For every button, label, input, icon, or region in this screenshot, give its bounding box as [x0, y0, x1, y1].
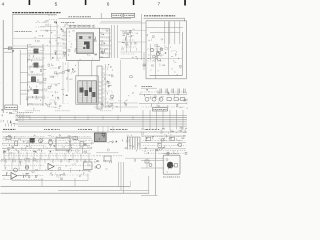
- ladder rail wire: [42, 44, 44, 106]
- IC tall box pin stubs: [102, 68, 105, 70]
- wire horizontal: [40, 30, 56, 32]
- wire vertical: [155, 58, 157, 79]
- section box: power amp: [67, 28, 100, 60]
- IC U2 (hatched): [78, 81, 96, 103]
- wire vertical: [91, 61, 93, 76]
- component cluster above box: [162, 39, 163, 41]
- relay box: [84, 162, 93, 170]
- IC U2 internal dividers: [82, 81, 84, 103]
- box A pin stubs: [63, 31, 67, 33]
- motor label text: [163, 176, 165, 178]
- IC U3 small box: [94, 133, 106, 142]
- right section title: touch delay timing: [144, 15, 146, 17]
- section divider wire: [140, 14, 142, 60]
- wire vertical: [111, 25, 113, 58]
- ladder rung wires: [28, 46, 44, 48]
- component cluster: right band: [170, 138, 172, 141]
- wire horizontal: [40, 25, 56, 27]
- wire horizontal: [17, 175, 30, 177]
- component cluster: record amp mid: [50, 151, 51, 153]
- component cluster: output stage mid: [88, 164, 89, 166]
- bottom wire 2: [58, 189, 149, 191]
- boxed label: [152, 108, 167, 111]
- motor top label: [163, 152, 164, 154]
- header rule wire: [59, 18, 132, 20]
- svg-text:7: 7: [158, 1, 161, 6]
- wire backbone: [1, 158, 93, 160]
- wire vertical bus: [19, 50, 21, 105]
- section box: bias stage: [76, 76, 98, 104]
- wire horizontal to touch box: [120, 58, 146, 60]
- op-amp U4: [11, 173, 17, 180]
- wire vertical: [150, 44, 152, 60]
- resistor R201 body: [6, 136, 11, 139]
- component row below IC U1: [92, 58, 94, 60]
- wire backbone: [141, 135, 186, 137]
- wire drops: [5, 124, 7, 127]
- IC box outline: [56, 138, 70, 150]
- transistor Q402: [149, 164, 152, 167]
- resistor bodies: [167, 98, 171, 101]
- capacitor C202 body: [15, 141, 18, 146]
- header small label text: [69, 16, 70, 18]
- grid ruler tick: [184, 0, 186, 6]
- resistor body: [145, 160, 149, 163]
- wire vertical: [126, 30, 128, 52]
- wire horizontal: [150, 31, 180, 33]
- wire horizontal: [118, 41, 146, 43]
- wire backbone: [141, 148, 186, 150]
- component chain outside box: [143, 52, 145, 70]
- wire stub: [20, 89, 28, 91]
- bus drop wires right: [142, 110, 144, 130]
- wire horizontal to touch box: [99, 22, 146, 24]
- wire horizontal: [96, 152, 119, 154]
- svg-text:4: 4: [2, 1, 5, 6]
- bottom wire 3: [1, 192, 150, 194]
- component row under bus: [181, 128, 183, 130]
- transistor Q201: [39, 139, 43, 143]
- wire vertical: [117, 25, 119, 58]
- section sub-box right of box A: [99, 29, 109, 58]
- sheet title: TOUCH CONTROL ASSEMBLY: [12, 12, 14, 14]
- wire backbone: [139, 94, 187, 96]
- wire horizontal: [146, 26, 183, 28]
- capacitor pairs: [159, 89, 161, 94]
- wire vertical: [67, 62, 69, 92]
- wire backbone: [2, 137, 92, 139]
- bus jumper ticks: [29, 116, 31, 120]
- label REC/PB switching: [15, 31, 16, 33]
- wire horizontal: [94, 106, 138, 108]
- connector label box: [5, 105, 17, 110]
- wire horizontal: [4, 51, 13, 53]
- wire vertical bus: [12, 15, 14, 106]
- component cluster mid-lower: [127, 104, 129, 106]
- IC U1 (hatched hybrid IC): [76, 33, 93, 54]
- wire verticals: [164, 21, 166, 44]
- wire stub: [20, 72, 28, 74]
- component cluster: input amp column: [27, 99, 28, 100]
- motor M1 box: [163, 155, 180, 174]
- component cluster mid: [135, 56, 137, 58]
- wire horizontal: [67, 60, 100, 62]
- wire horizontal: [125, 157, 164, 159]
- wire backbone: [2, 142, 92, 144]
- wire backbone: [2, 148, 92, 150]
- wire vertical to bottom: [74, 178, 76, 186]
- paper grain noise: [61, 36, 62, 39]
- box B pin stubs: [98, 81, 101, 83]
- wire tick: [100, 13, 102, 19]
- IC small box: [104, 156, 111, 161]
- motor M1 body: [167, 162, 174, 169]
- transistor Q10: [150, 48, 154, 52]
- wire vertical: [62, 62, 64, 104]
- op-amp U5: [48, 164, 54, 170]
- component cluster: sparse mid: [98, 160, 99, 161]
- wire horizontal: [2, 175, 11, 177]
- wire vertical: [77, 61, 79, 76]
- component cluster: mid sparse: [107, 149, 109, 151]
- component bodies: [73, 137, 78, 140]
- resistor array R210-R215: [127, 137, 129, 150]
- wire vertical: [129, 181, 131, 186]
- wire vertical: [119, 60, 121, 112]
- wire verticals band link: [3, 151, 5, 161]
- ladder rail wire: [27, 44, 29, 106]
- wire horizontal: [101, 21, 141, 23]
- dark component group: [29, 142, 31, 145]
- grid ruler tick: [133, 0, 135, 5]
- component body boxes: [34, 49, 39, 54]
- wire horizontal: [141, 167, 164, 169]
- component cluster: playback eq row: [154, 96, 156, 98]
- wire chain vertical: [56, 24, 58, 58]
- connector CN1 cluster: [10, 112, 12, 113]
- wire vertical: [154, 149, 156, 195]
- label above box A: [68, 25, 69, 27]
- wire stub: [20, 93, 28, 95]
- component cluster left of box A: [65, 53, 66, 55]
- wire vertical: [148, 176, 150, 193]
- svg-text:6: 6: [107, 1, 110, 6]
- wire verticals nested frame: [118, 162, 120, 186]
- dark component box: [30, 138, 35, 143]
- section box: touch delay: [146, 21, 186, 79]
- grid ruler tick: [29, 0, 31, 5]
- transistors Q row: [145, 97, 149, 101]
- wire horizontal: [13, 45, 67, 47]
- paper background: [0, 0, 188, 200]
- sheet border wire: [2, 20, 4, 113]
- wire horizontal: [141, 160, 164, 162]
- component cluster: upper input column: [37, 41, 39, 42]
- wire horizontal: [120, 51, 141, 53]
- switch S1 contacts: [8, 47, 11, 50]
- wire vertical to bottom: [41, 178, 43, 186]
- wire backbone: [141, 142, 186, 144]
- transistor Q302: [25, 166, 29, 170]
- bus drop wires left: [16, 113, 18, 121]
- wire horizontal: [147, 58, 182, 60]
- component cluster: dense right-mid: [136, 150, 138, 152]
- wire vertical: [87, 176, 89, 181]
- header boxed label 2: [123, 13, 135, 17]
- lower section title text: [3, 128, 5, 130]
- wire horizontal: [13, 37, 67, 39]
- wire horizontal band2 bottom: [12, 180, 88, 182]
- component cluster right of box A: [101, 51, 103, 52]
- wire drops to lower band: [97, 126, 99, 133]
- wire horizontal: [94, 102, 138, 104]
- wire chain vertical: [105, 64, 107, 108]
- wire backbone: [8, 170, 90, 172]
- IC tall box: [97, 66, 102, 109]
- bottom wire 4: [141, 194, 158, 196]
- wire stubs to box A: [99, 32, 111, 34]
- component cluster inside box A: [72, 30, 74, 32]
- grid ruler tick: [85, 0, 87, 5]
- bus label text: [24, 110, 27, 112]
- component label text row: [3, 155, 6, 157]
- wire chain vertical: [50, 24, 52, 58]
- junction: [12, 50, 14, 52]
- component cluster sparse: [126, 99, 128, 101]
- inner box bottom wire: [150, 74, 183, 76]
- svg-text:5: 5: [55, 1, 58, 6]
- component cluster left of box B: [57, 97, 58, 99]
- wire verticals output stage: [4, 157, 6, 170]
- component cluster upper col: [52, 57, 53, 58]
- wire backbone: [139, 103, 187, 105]
- wire horizontal: [120, 29, 146, 31]
- wire vertical: [156, 44, 158, 60]
- wire vertical mid: [168, 21, 170, 75]
- wire vertical: [130, 30, 132, 52]
- wire vertical: [11, 176, 13, 181]
- wire vertical: [146, 158, 148, 168]
- component cluster: output stage left: [26, 173, 29, 175]
- IC U1 dark core: [84, 42, 90, 45]
- component cluster left of box B outer: [65, 95, 67, 97]
- lower section header rule wire: [2, 131, 187, 133]
- header small text left: [61, 21, 62, 23]
- wire stub: [20, 82, 28, 84]
- component cluster: delay circuit: [159, 52, 161, 54]
- component cluster: record amp left: [45, 146, 47, 147]
- bottom wire 1: [1, 185, 131, 187]
- header boxed label 1: [112, 13, 123, 17]
- connector pin labels: [17, 112, 18, 114]
- IC U2 dark cells: [80, 88, 84, 93]
- bus wires: [16, 115, 188, 117]
- wire hook: [184, 18, 186, 21]
- capacitors row: [5, 159, 7, 162]
- section label: playback eq: [142, 86, 143, 88]
- component cluster between boxes: [68, 69, 70, 71]
- wire horizontal: [3, 48, 27, 50]
- transistor row above box A: [70, 25, 72, 27]
- inner box side wire: [182, 32, 184, 75]
- transistor Q401: [97, 165, 101, 169]
- component bodies: [146, 137, 151, 140]
- motor terminal box: [175, 164, 178, 168]
- component cluster lower mid: [111, 108, 113, 110]
- wire vertical: [113, 25, 115, 58]
- transistor Q301: [14, 168, 18, 172]
- transistor Q11: [156, 52, 160, 56]
- wire horizontal: [20, 53, 66, 55]
